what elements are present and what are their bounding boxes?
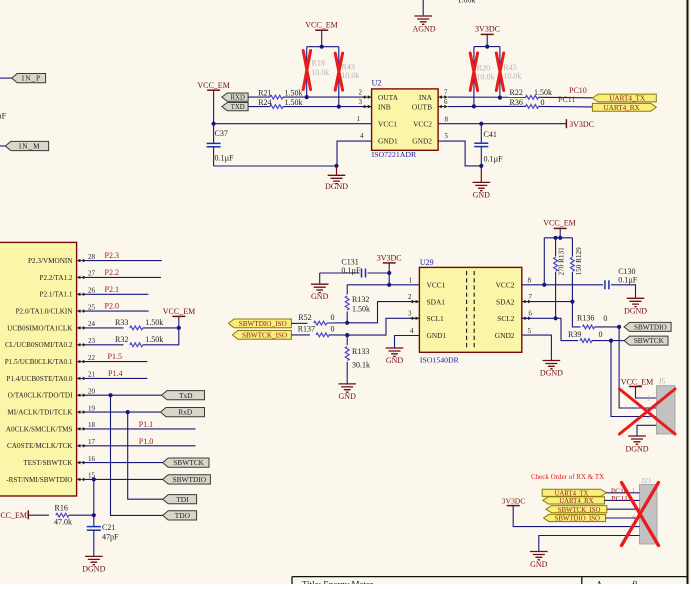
resistor R43 10.0k (deleted) bbox=[338, 47, 340, 107]
ground DGND below C130 bbox=[627, 298, 645, 306]
node DGND junction bbox=[334, 164, 338, 168]
port RXD bbox=[222, 93, 248, 101]
svg-text:SBWTDIO: SBWTDIO bbox=[172, 475, 206, 484]
capacitor C41 0.1uF bbox=[479, 122, 483, 126]
svg-text:Check Order of RX & TX: Check Order of RX & TX bbox=[531, 473, 604, 481]
junction R129 to SDA2 bbox=[570, 300, 574, 304]
wire VCC_EM to J5 pin 1 bbox=[636, 387, 657, 399]
port IN_P bbox=[12, 74, 46, 83]
svg-text:VCC2: VCC2 bbox=[496, 281, 515, 290]
svg-text:P2.2/TA1.2: P2.2/TA1.2 bbox=[40, 274, 73, 282]
svg-text:SDA2: SDA2 bbox=[496, 297, 515, 306]
svg-text:47.0k: 47.0k bbox=[54, 518, 72, 527]
svg-text:3: 3 bbox=[359, 98, 363, 106]
wire P2.1 bbox=[86, 293, 148, 295]
junction R18 to OUTA wire bbox=[305, 95, 309, 99]
U2 pin 3 bbox=[362, 106, 371, 108]
svg-text:5: 5 bbox=[445, 132, 449, 140]
svg-text:P1.1: P1.1 bbox=[139, 420, 153, 429]
svg-text:1: 1 bbox=[632, 487, 636, 495]
svg-text:VCC1: VCC1 bbox=[427, 281, 446, 290]
svg-text:GND1: GND1 bbox=[427, 331, 447, 340]
svg-text:1.00k: 1.00k bbox=[458, 0, 476, 5]
svg-text:TxD: TxD bbox=[179, 391, 193, 400]
svg-text:P2.1/TA1.1: P2.1/TA1.1 bbox=[40, 291, 73, 299]
svg-text:J21: J21 bbox=[641, 476, 652, 485]
svg-text:3V3DC: 3V3DC bbox=[569, 120, 594, 129]
port IN_M bbox=[5, 141, 48, 150]
svg-text:C131: C131 bbox=[341, 258, 358, 267]
svg-text:47pF: 47pF bbox=[102, 533, 119, 542]
svg-text:UCB0SIMO/TA1CLK: UCB0SIMO/TA1CLK bbox=[7, 324, 73, 332]
ground AGND bbox=[414, 16, 432, 24]
red X over R45 bbox=[496, 53, 503, 91]
U29 pin 7 bbox=[522, 301, 531, 303]
op-isolator U2 ISO7221ADR body bbox=[372, 89, 439, 150]
capacitor C37 0.1uF bbox=[213, 124, 215, 144]
svg-text:INA: INA bbox=[419, 93, 433, 102]
ground GND below C131 bbox=[319, 273, 321, 284]
resistor R45 10.0k (deleted) bbox=[499, 47, 501, 98]
svg-text:TDO: TDO bbox=[175, 511, 191, 520]
svg-text:DGND: DGND bbox=[624, 306, 647, 315]
microcontroller U? body (clipped at left) bbox=[0, 242, 77, 496]
svg-text:GND2: GND2 bbox=[412, 137, 432, 146]
svg-text:UART4_TX: UART4_TX bbox=[554, 490, 588, 497]
resistor R33 1.50k bbox=[86, 327, 124, 329]
wire P2.3 bbox=[86, 260, 162, 262]
svg-text:19: 19 bbox=[88, 404, 96, 412]
svg-text:OUTB: OUTB bbox=[412, 102, 432, 111]
svg-text:Title: Energy Meter: Title: Energy Meter bbox=[302, 580, 373, 585]
port UART4_RX at J21 bbox=[543, 497, 605, 504]
ground DGND below J5 bbox=[628, 436, 646, 444]
resistor R21 1.50k bbox=[248, 96, 270, 98]
wire pin20 to TxD bbox=[86, 394, 162, 396]
svg-text:VCC_EM: VCC_EM bbox=[163, 307, 195, 316]
wire J21 pin6 to GND bbox=[539, 536, 640, 552]
resistor R32 1.50k bbox=[86, 344, 124, 346]
junction R131 to SCL2 bbox=[554, 316, 558, 320]
wire SCL2 row bbox=[522, 317, 556, 319]
wire GND1 to DGND bbox=[337, 141, 372, 165]
svg-text:VCC_EM: VCC_EM bbox=[543, 218, 575, 227]
svg-text:INB: INB bbox=[378, 102, 391, 111]
svg-text:R36: R36 bbox=[510, 98, 523, 107]
svg-text:0.1µF: 0.1µF bbox=[618, 276, 638, 285]
svg-text:SBWTDIO_ISO: SBWTDIO_ISO bbox=[555, 516, 600, 523]
svg-text:O/TA0CLK/TDO/TDI: O/TA0CLK/TDO/TDI bbox=[8, 392, 74, 400]
wire P1.0 bbox=[86, 445, 196, 447]
svg-text:GND: GND bbox=[311, 292, 329, 301]
svg-text:DGND: DGND bbox=[82, 564, 105, 573]
svg-text:1: 1 bbox=[409, 276, 413, 284]
wire VCC1 of U29 bbox=[347, 284, 419, 286]
wire pin19 to RxD bbox=[86, 411, 161, 413]
i2c isolator U29 ISO1540DR body bbox=[419, 267, 521, 352]
svg-text:24: 24 bbox=[88, 320, 96, 328]
wire to IN_P bbox=[0, 77, 12, 79]
svg-text:270 R131: 270 R131 bbox=[558, 247, 566, 276]
node VCC1 wire bbox=[212, 122, 216, 126]
port UART4_TX bbox=[593, 94, 657, 102]
title block top line bbox=[292, 576, 688, 578]
title block divider bbox=[581, 577, 583, 584]
svg-text:0: 0 bbox=[599, 330, 603, 339]
port SBWTDIO bbox=[163, 475, 211, 484]
svg-text:UART4_RX: UART4_RX bbox=[603, 104, 640, 112]
svg-text:P1.5/UCB0CLK/TA0.1: P1.5/UCB0CLK/TA0.1 bbox=[5, 358, 73, 366]
wire pin20 down to TDO bbox=[111, 395, 163, 515]
port SBWTDIO right bbox=[624, 322, 671, 331]
red X over J21 bbox=[622, 483, 659, 546]
wire J21 pin1 bbox=[606, 492, 639, 494]
wire R52 node to SDA1 bbox=[347, 302, 419, 323]
svg-text:0: 0 bbox=[331, 325, 335, 334]
junction R43 to INB wire bbox=[337, 105, 341, 109]
svg-text:A0CLK/SMCLK/TMS: A0CLK/SMCLK/TMS bbox=[6, 425, 73, 433]
U29 isolation dashed lines bbox=[466, 271, 468, 349]
svg-text:GND: GND bbox=[530, 560, 548, 569]
svg-text:J5: J5 bbox=[659, 376, 666, 385]
svg-text:30.1k: 30.1k bbox=[352, 361, 370, 370]
svg-text:21: 21 bbox=[88, 371, 96, 379]
svg-text:1.50k: 1.50k bbox=[145, 335, 163, 344]
wire SDA2 row bbox=[522, 301, 573, 303]
capacitor C21 47pF bbox=[93, 515, 95, 526]
svg-text:SCL1: SCL1 bbox=[427, 314, 445, 323]
wire C37 to DGND node bbox=[214, 165, 337, 167]
svg-text:0.1µF: 0.1µF bbox=[484, 155, 504, 164]
port TDO bbox=[163, 511, 197, 520]
svg-text:C37: C37 bbox=[215, 129, 228, 138]
junction R133/R137 bbox=[345, 333, 349, 337]
port SBWTCK_ISO at J21 bbox=[546, 506, 607, 513]
svg-text:27: 27 bbox=[88, 270, 96, 278]
svg-text:6: 6 bbox=[444, 98, 448, 106]
node VCC_EM rail bbox=[544, 237, 572, 239]
svg-text:A: A bbox=[596, 580, 603, 585]
svg-text:fl: fl bbox=[632, 580, 638, 585]
resistor R131 270 bbox=[555, 238, 557, 257]
resistor R137 0 bbox=[291, 334, 310, 336]
red X over R18 bbox=[303, 51, 310, 90]
sheet border right edge bbox=[687, 0, 689, 584]
svg-text:R137: R137 bbox=[298, 325, 315, 334]
wire pin15 to SBWTDIO bbox=[86, 478, 163, 480]
resistor R133 30.1k bbox=[346, 335, 348, 345]
svg-text:R18: R18 bbox=[312, 59, 325, 68]
svg-text:5: 5 bbox=[528, 327, 532, 335]
svg-text:C41: C41 bbox=[484, 130, 497, 139]
svg-text:SBWTDIO_ISO: SBWTDIO_ISO bbox=[239, 320, 287, 328]
svg-text:MI/ACLK/TDI/TCLK: MI/ACLK/TDI/TCLK bbox=[7, 409, 73, 417]
svg-text:CL/UCB0SOMI/TA0.2: CL/UCB0SOMI/TA0.2 bbox=[5, 341, 73, 349]
wire from top to AGND bbox=[422, 0, 424, 15]
port SBWTCK_ISO bbox=[232, 331, 291, 340]
svg-text:CA0STE/MCLK/TCK: CA0STE/MCLK/TCK bbox=[7, 442, 73, 450]
svg-text:0: 0 bbox=[331, 313, 335, 322]
svg-text:0.1µF: 0.1µF bbox=[0, 112, 7, 121]
wire VCC2 to 3V3DC bbox=[438, 123, 566, 125]
svg-text:IN_P: IN_P bbox=[22, 75, 41, 83]
svg-text:1: 1 bbox=[647, 395, 651, 403]
svg-text:7: 7 bbox=[444, 89, 448, 97]
svg-text:P2.0: P2.0 bbox=[105, 302, 119, 311]
power flag VCC_EM at R33 bbox=[177, 326, 181, 330]
resistor R39 0 bbox=[580, 339, 592, 343]
wire SDA2 down to R136 bbox=[572, 302, 580, 327]
svg-text:0.1µF: 0.1µF bbox=[215, 154, 235, 163]
wire VCC2 row bbox=[522, 284, 603, 286]
node 3V3DC rail bbox=[474, 46, 500, 48]
resistor R52 0 bbox=[291, 322, 307, 324]
ground GND below J21 bbox=[530, 552, 548, 560]
U2 pin 7 bbox=[439, 96, 448, 98]
resistor R20 10.0k (deleted) bbox=[473, 47, 475, 107]
wire SBWTCK down to J5 pin 3 bbox=[611, 341, 657, 417]
wire P2.0 bbox=[86, 310, 149, 312]
wire pin15 down to R16/C21 bbox=[93, 479, 95, 515]
svg-text:R32: R32 bbox=[115, 335, 128, 344]
resistor R136 0 bbox=[583, 325, 595, 329]
svg-text:GND2: GND2 bbox=[495, 331, 515, 340]
wire pin16 to SBWTCK bbox=[86, 462, 163, 464]
svg-text:1.50k: 1.50k bbox=[285, 98, 303, 107]
svg-text:DGND: DGND bbox=[625, 444, 648, 453]
svg-text:3V3DC: 3V3DC bbox=[502, 496, 526, 505]
resistor R132 1.50k bbox=[346, 285, 348, 295]
svg-text:0: 0 bbox=[603, 314, 607, 323]
svg-text:150 R129: 150 R129 bbox=[575, 247, 583, 276]
wire GND2 to C41 bottom bbox=[438, 141, 481, 166]
title block left edge bbox=[291, 577, 293, 584]
svg-text:R136: R136 bbox=[577, 314, 594, 323]
svg-text:25: 25 bbox=[88, 303, 96, 311]
svg-text:26: 26 bbox=[88, 287, 96, 295]
svg-text:R21: R21 bbox=[258, 88, 271, 97]
svg-text:R52: R52 bbox=[298, 313, 311, 322]
ground DGND below U2 bbox=[336, 166, 338, 175]
svg-text:RXD: RXD bbox=[231, 95, 245, 102]
svg-text:VCC_EM: VCC_EM bbox=[305, 21, 337, 30]
svg-text:TEST/SBWTCK: TEST/SBWTCK bbox=[23, 459, 73, 467]
svg-text:TDI: TDI bbox=[176, 495, 189, 504]
junction SBWTDIO net bbox=[617, 325, 621, 329]
svg-text:GND1: GND1 bbox=[378, 137, 398, 146]
svg-text:SBWTCK_ISO: SBWTCK_ISO bbox=[558, 507, 601, 514]
connector J5 body bbox=[657, 386, 676, 434]
node VCC_EM rail bbox=[307, 46, 339, 48]
wire pin19 down to TDI bbox=[128, 412, 163, 499]
junction SBWTCK net bbox=[609, 339, 613, 343]
wire J21 pin3 bbox=[607, 508, 640, 510]
wire P1.4 bbox=[86, 377, 147, 379]
wire SBWTDIO down to J5 pin 2 bbox=[619, 327, 656, 408]
ground GND below U29 pin4 bbox=[386, 348, 404, 356]
svg-text:R16: R16 bbox=[55, 504, 68, 513]
svg-text:ISO1540DR: ISO1540DR bbox=[420, 356, 460, 365]
svg-text:20: 20 bbox=[88, 387, 96, 395]
port RxD bbox=[161, 408, 205, 417]
resistor R36 0 on OUTB wire bbox=[448, 105, 526, 107]
svg-text:PC11: PC11 bbox=[558, 95, 576, 104]
svg-text:R22: R22 bbox=[510, 88, 523, 97]
wire R137 node to SCL1 bbox=[347, 318, 419, 335]
svg-text:GND: GND bbox=[339, 392, 357, 401]
svg-text:P2.3: P2.3 bbox=[105, 251, 119, 260]
svg-text:UART4_RX: UART4_RX bbox=[559, 498, 593, 505]
svg-text:ISO7221ADR: ISO7221ADR bbox=[372, 150, 417, 159]
svg-text:SBWTDIO: SBWTDIO bbox=[634, 324, 667, 332]
svg-text:P2.3/VMONIN: P2.3/VMONIN bbox=[28, 257, 73, 265]
svg-text:VCC_EM: VCC_EM bbox=[621, 377, 653, 386]
svg-text:C21: C21 bbox=[102, 523, 115, 532]
junction R45 to INA wire bbox=[498, 96, 502, 100]
svg-text:10.0k: 10.0k bbox=[477, 72, 495, 81]
ground GND below C41 bbox=[480, 166, 482, 182]
svg-text:UART4_TX: UART4_TX bbox=[609, 95, 646, 103]
svg-text:1: 1 bbox=[357, 115, 361, 123]
U29 pin 6 bbox=[522, 317, 531, 319]
svg-text:VCC_EM: VCC_EM bbox=[197, 81, 229, 90]
svg-text:P2.1: P2.1 bbox=[105, 285, 119, 294]
red X over R20 bbox=[470, 53, 477, 91]
svg-text:P1.4/UCB0STE/TA0.0: P1.4/UCB0STE/TA0.0 bbox=[6, 375, 73, 383]
wire SCL2 jog down to R39 bbox=[556, 318, 578, 340]
port TXD bbox=[222, 103, 248, 111]
wire GND1 to GND bbox=[395, 336, 420, 348]
svg-text:8: 8 bbox=[528, 276, 532, 284]
svg-text:P2.2: P2.2 bbox=[105, 268, 119, 277]
svg-text:4: 4 bbox=[360, 132, 364, 140]
U29 pin 2 bbox=[410, 301, 419, 303]
svg-text:1.50k: 1.50k bbox=[145, 318, 163, 327]
port SBWTDIO_ISO at J21 bbox=[544, 514, 606, 521]
svg-text:DGND: DGND bbox=[325, 182, 348, 191]
svg-text:VCC2: VCC2 bbox=[413, 119, 432, 128]
svg-text:GND: GND bbox=[473, 191, 491, 200]
svg-text:U2: U2 bbox=[372, 79, 382, 88]
svg-text:2: 2 bbox=[408, 293, 412, 301]
svg-text:GND: GND bbox=[386, 356, 404, 365]
svg-text:R133: R133 bbox=[352, 347, 369, 356]
svg-text:DGND: DGND bbox=[540, 369, 563, 378]
svg-text:U29: U29 bbox=[420, 258, 434, 267]
svg-text:17: 17 bbox=[88, 438, 96, 446]
svg-text:P1.0: P1.0 bbox=[139, 437, 153, 446]
svg-text:SDA1: SDA1 bbox=[427, 297, 446, 306]
wire J21 pin4 bbox=[606, 517, 640, 519]
svg-text:RxD: RxD bbox=[178, 408, 193, 417]
junction R20 to OUTB wire bbox=[472, 104, 476, 108]
svg-text:10.0k: 10.0k bbox=[311, 68, 329, 77]
wire 3V3DC to J21 pin5 bbox=[513, 506, 639, 527]
svg-text:AGND: AGND bbox=[412, 24, 435, 33]
port SBWTCK right bbox=[624, 336, 668, 345]
svg-text:3V3DC: 3V3DC bbox=[475, 24, 500, 33]
wire J5 pin 4 to DGND bbox=[637, 425, 657, 435]
wire P1.5 bbox=[86, 361, 147, 363]
wire GND2 to DGND bbox=[522, 335, 552, 360]
wire J21 pin2 bbox=[605, 499, 640, 501]
svg-text:TXD: TXD bbox=[231, 104, 245, 111]
svg-text:1.50k: 1.50k bbox=[352, 305, 370, 314]
svg-text:23: 23 bbox=[88, 337, 96, 345]
port TDI bbox=[163, 495, 197, 504]
svg-text:R39: R39 bbox=[568, 330, 581, 339]
svg-text:VCC_EM: VCC_EM bbox=[0, 511, 27, 520]
svg-text:P1.4: P1.4 bbox=[108, 369, 122, 378]
svg-text:16: 16 bbox=[88, 455, 96, 463]
svg-text:R33: R33 bbox=[115, 318, 128, 327]
resistor R16 47.0k bbox=[28, 514, 49, 516]
junction R132/R52 bbox=[345, 321, 349, 325]
svg-text:6: 6 bbox=[529, 310, 533, 318]
power flag 3V3DC right of U2 bbox=[565, 119, 567, 128]
red X over J5 bbox=[620, 389, 676, 434]
svg-text:18: 18 bbox=[88, 421, 96, 429]
svg-text:3V3DC: 3V3DC bbox=[377, 253, 402, 262]
svg-text:IN_M: IN_M bbox=[19, 143, 41, 151]
ground DGND below U29 pin5 bbox=[543, 361, 561, 369]
wire P2.2 bbox=[86, 276, 161, 278]
resistor R22 1.50k on INA wire bbox=[448, 96, 526, 98]
svg-text:R132: R132 bbox=[352, 295, 369, 304]
svg-text:10.0k: 10.0k bbox=[503, 71, 521, 80]
svg-text:SBWTCK_ISO: SBWTCK_ISO bbox=[242, 332, 287, 340]
ground GND below R133 bbox=[338, 384, 356, 392]
U29 pin 3 bbox=[410, 317, 419, 319]
wire rail to VCC2 bbox=[543, 238, 545, 285]
svg-text:4: 4 bbox=[410, 327, 414, 335]
svg-text:0: 0 bbox=[541, 98, 545, 107]
port TxD bbox=[162, 391, 205, 400]
svg-text:P2.0/TA1.0/CLKIN: P2.0/TA1.0/CLKIN bbox=[16, 308, 74, 316]
svg-text:P1.5: P1.5 bbox=[108, 352, 122, 361]
svg-text:1.50k: 1.50k bbox=[534, 88, 552, 97]
svg-text:PC11: PC11 bbox=[611, 494, 628, 503]
svg-text:3: 3 bbox=[408, 310, 412, 318]
svg-text:SBWTCK: SBWTCK bbox=[173, 458, 204, 467]
U2 pin 6 bbox=[439, 106, 448, 108]
wire to IN_M bbox=[0, 145, 5, 147]
port SBWTCK bbox=[163, 458, 209, 467]
resistor R24 1.50k bbox=[248, 106, 270, 108]
svg-text:SCL2: SCL2 bbox=[497, 314, 515, 323]
U2 pin 2 bbox=[362, 96, 371, 98]
svg-text:7: 7 bbox=[529, 293, 533, 301]
capacitor C130 0.1uF bbox=[604, 280, 606, 289]
red X over R43 bbox=[335, 53, 342, 90]
svg-text:SBWTCK: SBWTCK bbox=[634, 337, 665, 345]
resistor R18 10.0k (deleted) bbox=[306, 47, 308, 98]
svg-text:10.0k: 10.0k bbox=[341, 71, 359, 80]
svg-text:-RST/NMI/SBWTDIO: -RST/NMI/SBWTDIO bbox=[6, 476, 72, 484]
svg-text:8: 8 bbox=[445, 116, 449, 124]
svg-text:R20: R20 bbox=[477, 64, 490, 73]
port SBWTDIO_ISO bbox=[229, 319, 292, 328]
svg-text:28: 28 bbox=[88, 253, 96, 261]
svg-text:0.1µF: 0.1µF bbox=[341, 266, 361, 275]
svg-text:R24: R24 bbox=[258, 98, 271, 107]
svg-text:OUTA: OUTA bbox=[378, 93, 399, 102]
port UART4_RX bbox=[592, 103, 656, 111]
svg-text:22: 22 bbox=[88, 354, 96, 362]
ground DGND below C21 bbox=[85, 556, 103, 564]
svg-text:R43: R43 bbox=[342, 62, 355, 71]
port UART4_TX at J21 bbox=[542, 489, 606, 496]
